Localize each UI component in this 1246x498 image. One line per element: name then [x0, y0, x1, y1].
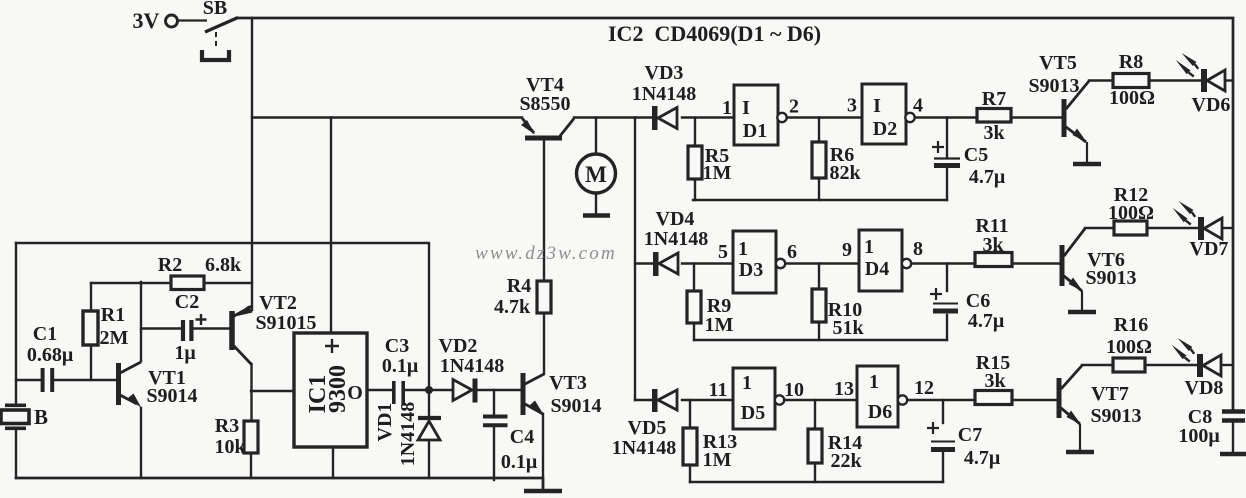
- svg-text:100μ: 100μ: [1178, 425, 1220, 447]
- svg-text:VT3: VT3: [549, 372, 587, 394]
- svg-text:1N4148: 1N4148: [397, 402, 419, 466]
- svg-text:D4: D4: [865, 258, 889, 280]
- svg-text:1: 1: [742, 372, 752, 394]
- svg-text:S9013: S9013: [1085, 267, 1136, 289]
- svg-text:0.1μ: 0.1μ: [501, 451, 538, 473]
- svg-text:S9013: S9013: [1028, 75, 1079, 97]
- svg-text:5: 5: [718, 241, 728, 263]
- svg-text:VD6: VD6: [1192, 94, 1231, 116]
- svg-text:100Ω: 100Ω: [1108, 202, 1154, 224]
- svg-text:VD4: VD4: [656, 208, 695, 230]
- svg-text:6.8k: 6.8k: [205, 254, 242, 276]
- svg-text:51k: 51k: [832, 317, 864, 339]
- svg-text:C3: C3: [385, 335, 409, 357]
- svg-text:C1: C1: [33, 323, 57, 345]
- svg-text:10k: 10k: [214, 436, 246, 458]
- svg-text:D3: D3: [739, 259, 763, 281]
- svg-text:1μ: 1μ: [174, 342, 196, 364]
- svg-text:4.7μ: 4.7μ: [968, 310, 1005, 332]
- svg-text:13: 13: [834, 378, 854, 400]
- svg-text:1: 1: [738, 238, 748, 260]
- svg-text:S9013: S9013: [1090, 405, 1141, 427]
- svg-text:12: 12: [914, 377, 934, 399]
- svg-text:B: B: [34, 405, 48, 429]
- svg-text:3k: 3k: [984, 370, 1006, 392]
- svg-text:S8550: S8550: [519, 93, 570, 115]
- svg-text:O: O: [347, 382, 363, 404]
- svg-text:D1: D1: [743, 120, 767, 142]
- svg-text:C5: C5: [964, 144, 988, 166]
- svg-text:VD8: VD8: [1185, 377, 1224, 399]
- svg-text:C4: C4: [510, 426, 534, 448]
- svg-text:R7: R7: [982, 88, 1006, 110]
- svg-text:IC2 CD4069(D1 ~ D6): IC2 CD4069(D1 ~ D6): [608, 21, 821, 46]
- svg-text:4.7k: 4.7k: [494, 296, 531, 318]
- svg-text:10: 10: [784, 379, 804, 401]
- svg-text:D6: D6: [868, 401, 892, 423]
- svg-text:1M: 1M: [703, 449, 732, 471]
- svg-text:R2: R2: [158, 254, 182, 276]
- svg-text:VD2: VD2: [439, 335, 478, 357]
- svg-text:9: 9: [842, 239, 852, 261]
- svg-text:VT5: VT5: [1039, 52, 1077, 74]
- svg-text:2M: 2M: [100, 327, 129, 349]
- svg-text:3k: 3k: [982, 234, 1004, 256]
- svg-text:C6: C6: [966, 290, 990, 312]
- svg-text:22k: 22k: [830, 450, 862, 472]
- svg-text:11: 11: [709, 379, 728, 401]
- svg-text:S9014: S9014: [146, 385, 197, 407]
- svg-text:M: M: [585, 162, 607, 187]
- svg-text:R3: R3: [215, 415, 239, 437]
- svg-text:C2: C2: [175, 291, 199, 313]
- svg-text:R4: R4: [507, 275, 531, 297]
- svg-text:4: 4: [913, 95, 923, 117]
- svg-text:S91015: S91015: [255, 312, 316, 334]
- svg-text:3V: 3V: [133, 8, 160, 33]
- svg-text:4.7μ: 4.7μ: [969, 166, 1006, 188]
- svg-text:D5: D5: [741, 402, 765, 424]
- svg-text:R16: R16: [1114, 314, 1148, 336]
- svg-text:6: 6: [787, 241, 797, 263]
- svg-text:4.7μ: 4.7μ: [964, 447, 1001, 469]
- svg-text:1N4148: 1N4148: [612, 437, 676, 459]
- svg-text:VT7: VT7: [1091, 383, 1129, 405]
- svg-text:1N4148: 1N4148: [644, 228, 708, 250]
- svg-text:C7: C7: [958, 424, 982, 446]
- svg-text:0.1μ: 0.1μ: [382, 355, 419, 377]
- svg-text:SB: SB: [203, 0, 227, 19]
- svg-text:3: 3: [847, 95, 857, 117]
- svg-text:100Ω: 100Ω: [1106, 336, 1152, 358]
- svg-text:I: I: [742, 97, 750, 119]
- svg-text:3k: 3k: [983, 122, 1005, 144]
- svg-text:S9014: S9014: [550, 395, 601, 417]
- svg-text:82k: 82k: [829, 162, 861, 184]
- svg-text:1: 1: [864, 236, 874, 258]
- svg-text:0.68μ: 0.68μ: [27, 344, 74, 366]
- svg-text:VD5: VD5: [628, 417, 667, 439]
- svg-text:1N4148: 1N4148: [632, 83, 696, 105]
- svg-text:100Ω: 100Ω: [1109, 87, 1155, 109]
- svg-text:R1: R1: [101, 304, 125, 326]
- svg-text:R8: R8: [1119, 51, 1143, 73]
- svg-text:VD3: VD3: [645, 62, 684, 84]
- svg-text:1N4148: 1N4148: [440, 355, 504, 377]
- svg-text:VD1: VD1: [374, 403, 396, 442]
- svg-text:www.dz3w.com: www.dz3w.com: [475, 243, 617, 264]
- svg-text:8: 8: [913, 238, 923, 260]
- svg-text:VT2: VT2: [259, 292, 297, 314]
- svg-text:1: 1: [722, 97, 732, 119]
- svg-text:I: I: [873, 95, 881, 117]
- svg-text:1M: 1M: [705, 314, 734, 336]
- svg-text:2: 2: [789, 96, 799, 118]
- svg-text:1: 1: [869, 371, 879, 393]
- svg-text:1M: 1M: [703, 162, 732, 184]
- svg-text:VD7: VD7: [1190, 238, 1229, 260]
- svg-text:D2: D2: [873, 118, 897, 140]
